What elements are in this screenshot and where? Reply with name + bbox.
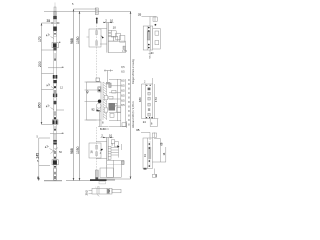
svg-text:35: 35 (138, 13, 142, 17)
svg-text:35: 35 (47, 19, 51, 23)
svg-text:173: 173 (154, 97, 158, 102)
svg-text:≈: ≈ (62, 131, 64, 135)
svg-text:16: 16 (90, 150, 94, 154)
svg-text:20,5: 20,5 (85, 190, 89, 196)
svg-text:245: 245 (35, 153, 39, 159)
svg-text:1050: 1050 (76, 146, 80, 154)
svg-text:10: 10 (110, 18, 114, 22)
svg-text:Abstand 160,5 / 2,05 m: Abstand 160,5 / 2,05 m (131, 101, 135, 128)
svg-text:200: 200 (38, 61, 42, 67)
svg-text:10: 10 (109, 134, 113, 138)
svg-text:180: 180 (138, 97, 142, 102)
svg-text:1050: 1050 (76, 36, 80, 44)
svg-text:850: 850 (38, 102, 42, 108)
svg-text:170: 170 (38, 36, 42, 42)
svg-text:≈: ≈ (62, 66, 64, 70)
svg-text:40: 40 (86, 90, 90, 94)
svg-text:988: 988 (70, 38, 74, 44)
svg-text:≈ 15: ≈ 15 (95, 186, 100, 189)
svg-text:Riegel 20mm 2-tourig: Riegel 20mm 2-tourig (131, 59, 135, 84)
svg-text:10: 10 (113, 25, 117, 29)
svg-text:17,5: 17,5 (122, 51, 127, 53)
svg-text:8-60 □: 8-60 □ (100, 127, 109, 131)
svg-text:988: 988 (70, 148, 74, 154)
svg-text:24: 24 (143, 120, 146, 124)
svg-text:35: 35 (136, 128, 140, 132)
svg-text:92: 92 (92, 107, 96, 111)
